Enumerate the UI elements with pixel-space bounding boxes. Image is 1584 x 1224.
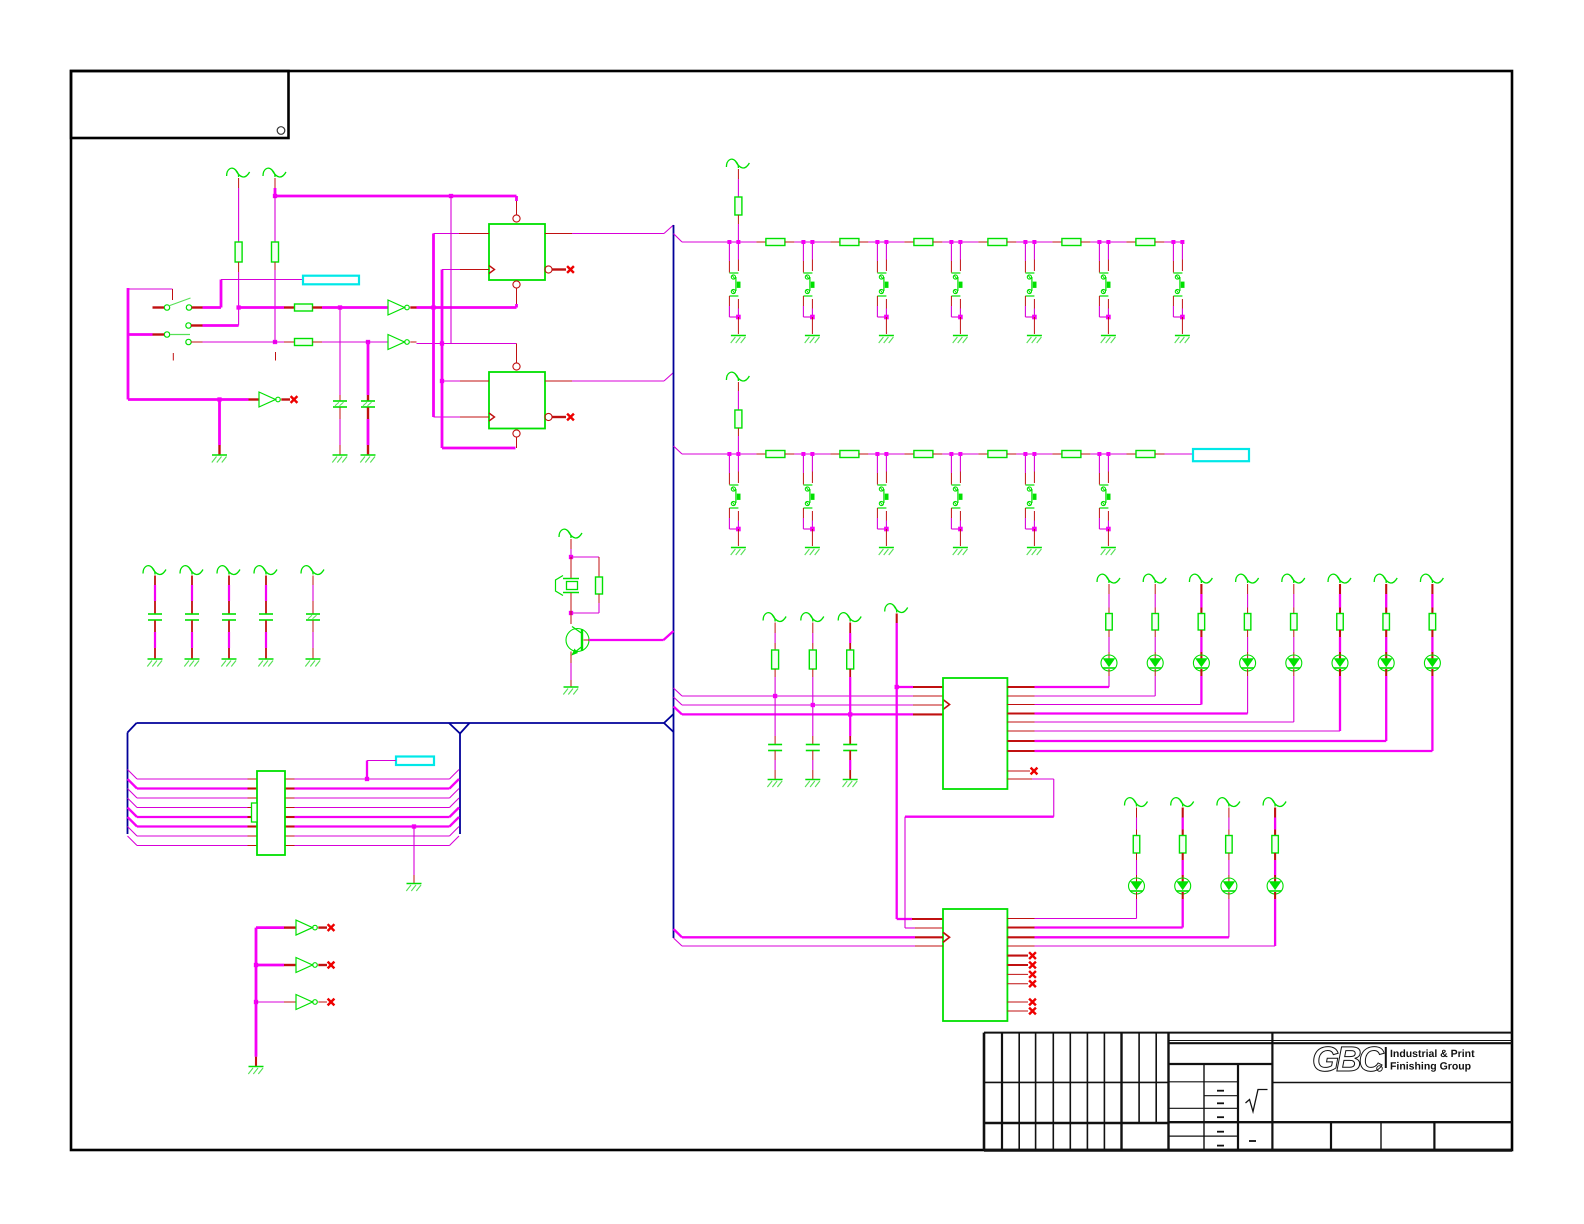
svg-text:Industrial & Print: Industrial & Print xyxy=(1390,1048,1475,1060)
svg-text:Finishing Group: Finishing Group xyxy=(1390,1061,1471,1073)
svg-text:GBC: GBC xyxy=(1312,1040,1385,1079)
